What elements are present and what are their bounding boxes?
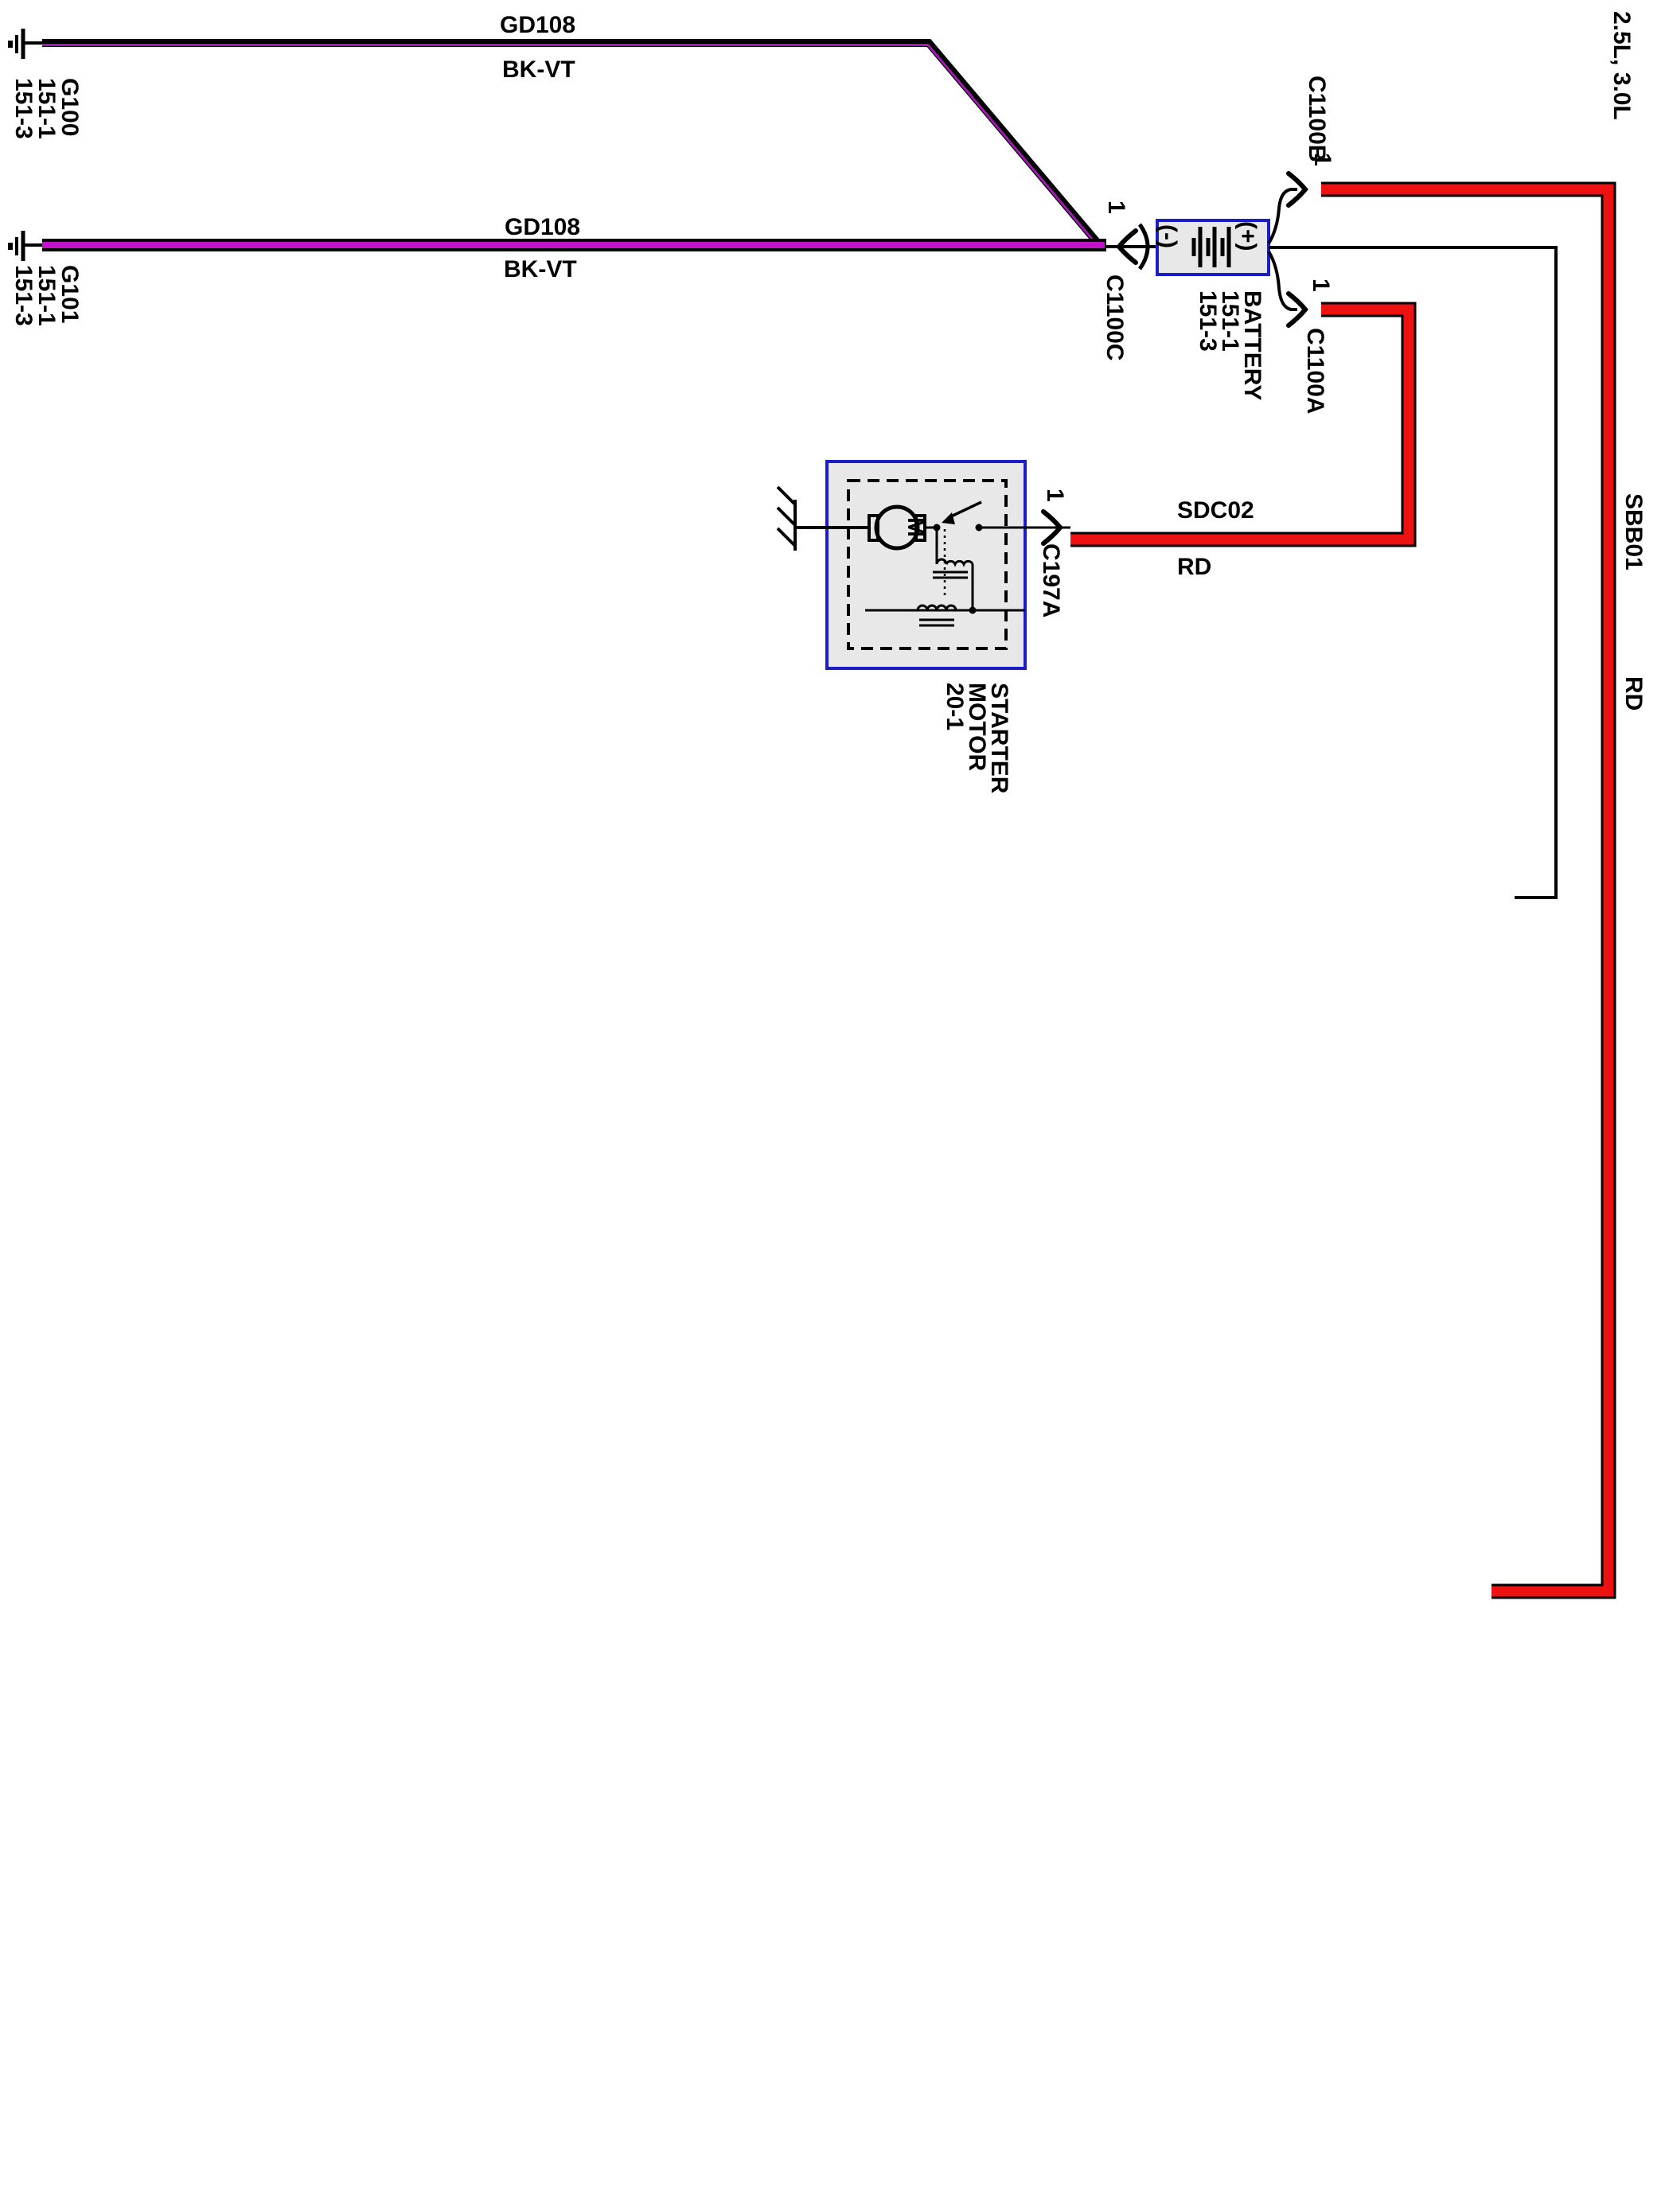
starter motor M + brushes [869,507,925,548]
svg-text:SDC02: SDC02 [1177,497,1254,524]
chassis ground (starter) [778,487,869,551]
label G101 151-1 151-3 [10,265,83,326]
connector C1100B arrow [1289,173,1305,205]
svg-text:BK-VT: BK-VT [504,256,577,282]
connector C1100A arrow [1289,294,1305,325]
wire GD108 BK-VT (from G101) [42,239,1106,251]
svg-text:GD108: GD108 [500,12,575,38]
svg-text:RD: RD [1177,554,1211,580]
wire SDC02 RD (C1100A to starter) [1070,310,1409,539]
svg-text:GD108: GD108 [505,214,580,240]
starter solenoid plunger (dotted) [944,529,946,598]
svg-text:(-): (-) [1155,224,1181,248]
starter solenoid pull-in coil [933,528,973,610]
label BATTERY 151-1 151-3 [1195,290,1265,400]
wire battery positive to C1100A [1269,251,1297,310]
connector C197A arrow [1043,512,1060,543]
svg-text:BK-VT: BK-VT [502,56,575,83]
svg-text:SBB01: SBB01 [1620,493,1647,571]
connector C1100C arrow [1119,231,1136,263]
battery 151-1 151-3 [1157,220,1269,275]
svg-text:1: 1 [1042,489,1068,502]
svg-text:20-1: 20-1 [942,683,968,730]
starter motor 20-1 [827,461,1025,668]
svg-text:1: 1 [1308,278,1334,292]
starter solenoid switch [925,502,1070,528]
svg-text:C1100A: C1100A [1302,328,1328,414]
starter solenoid hold-in coil [865,606,1025,625]
label STARTER MOTOR 20-1 [942,683,1012,794]
ground G101 [10,231,44,261]
wire stub into battery negative [1106,245,1157,248]
svg-text:(+): (+) [1234,221,1261,251]
svg-text:RD: RD [1620,676,1647,711]
svg-text:151-3: 151-3 [10,265,37,326]
svg-text:1: 1 [1103,201,1129,214]
label G100 151-1 151-3 [10,78,83,139]
svg-text:C1100C: C1100C [1102,275,1128,360]
svg-text:151-3: 151-3 [1195,290,1221,352]
svg-text:C197A: C197A [1038,543,1064,617]
wire GD108 BK-VT (from G100) [42,43,1102,248]
wire SBB01 RD (battery to BJB) [1321,189,1608,1591]
wire battery positive to C1100B [1269,189,1297,243]
ground G100 [10,29,44,59]
svg-text:151-3: 151-3 [10,78,37,139]
svg-text:2.5L, 3.0L: 2.5L, 3.0L [1608,11,1635,120]
svg-text:C1100B: C1100B [1304,76,1330,162]
wire battery positive to MIDI fuse (thin black) [1269,247,1556,898]
